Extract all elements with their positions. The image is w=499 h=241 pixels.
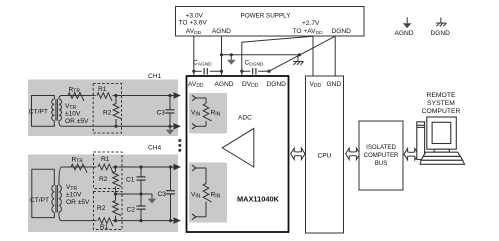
capacitor CDGND xyxy=(240,60,270,76)
svg-text:R2: R2 xyxy=(97,205,106,212)
svg-text:+3.0V: +3.0V xyxy=(186,12,204,19)
resistor R1 CH4 top xyxy=(97,156,114,173)
svg-text:CH4: CH4 xyxy=(148,145,162,152)
svg-text:CT/PT: CT/PT xyxy=(29,109,48,116)
svg-text:C3: C3 xyxy=(157,110,166,117)
CPU box xyxy=(306,76,344,233)
wire AVDD supply to ADC xyxy=(193,36,195,76)
svg-text:AGND: AGND xyxy=(212,28,231,35)
bus arrow ADC to CPU xyxy=(291,148,305,160)
svg-text:SYSTEM: SYSTEM xyxy=(427,100,455,107)
svg-text:RIN: RIN xyxy=(211,192,221,200)
input buffer block CH4 VIN RIN xyxy=(189,163,227,223)
resistor RTR CH4 xyxy=(71,157,87,173)
svg-text:DGND: DGND xyxy=(431,30,451,37)
svg-text:R1: R1 xyxy=(98,86,107,93)
svg-text:R1: R1 xyxy=(101,156,110,163)
DGND legend symbol xyxy=(431,18,451,38)
bus arrow CPU to isolated bus xyxy=(346,148,360,160)
resistor R2 CH1 xyxy=(103,94,122,128)
svg-text:COMPUTER: COMPUTER xyxy=(364,152,399,159)
svg-text:RIN: RIN xyxy=(211,110,221,118)
capacitor C3 CH4 xyxy=(158,165,176,222)
svg-text:BUS: BUS xyxy=(375,160,388,167)
wire GND supply to CPU xyxy=(334,36,336,76)
node AGND star junction xyxy=(220,53,223,56)
svg-text:COMPUTER: COMPUTER xyxy=(422,108,461,115)
label VTR source voltage CH4 xyxy=(66,184,90,206)
op-amp ADC triangle xyxy=(222,128,254,167)
svg-text:TO +3.6V: TO +3.6V xyxy=(179,19,208,26)
svg-text:R1: R1 xyxy=(100,224,109,231)
wire VDD supply to CPU xyxy=(312,36,314,76)
arrow CH1 bottom output xyxy=(174,123,182,129)
svg-text:DVDD: DVDD xyxy=(242,81,259,89)
capacitor C1 CH4 xyxy=(126,165,146,195)
svg-text:CT/PT: CT/PT xyxy=(30,197,49,204)
dashed divider box CH4 bottom R1 R2 xyxy=(94,192,123,230)
dashed divider box CH1 R1 R2 xyxy=(93,84,121,134)
wire CH4 middle rail to ground xyxy=(114,192,152,195)
resistor R2 CH4 bottom xyxy=(97,194,121,222)
ADC MAX11040K box xyxy=(187,76,289,232)
power supply box xyxy=(176,7,365,37)
svg-text:+2.7V: +2.7V xyxy=(302,20,320,27)
label VTR source voltage CH1 xyxy=(65,103,89,125)
wire CH4 bottom rail xyxy=(62,220,175,222)
svg-text:DGND: DGND xyxy=(332,28,352,35)
svg-text:C3: C3 xyxy=(158,191,167,198)
resistor R1 CH4 bottom xyxy=(97,216,114,232)
capacitor C2 CH4 xyxy=(127,194,146,222)
ground AGND middle CH4 xyxy=(148,194,156,204)
svg-text:CH1: CH1 xyxy=(148,73,162,80)
channel CH4 input network xyxy=(28,145,178,233)
svg-text:OR ±5V: OR ±5V xyxy=(66,199,90,206)
node DGND star junction xyxy=(298,53,301,56)
capacitor CAGND xyxy=(192,60,223,76)
svg-text:POWER SUPPLY: POWER SUPPLY xyxy=(241,12,292,19)
svg-text:C2: C2 xyxy=(127,207,136,214)
ground DGND at star node xyxy=(293,55,304,65)
channel CH1 input network xyxy=(28,73,178,136)
svg-text:VDD: VDD xyxy=(310,81,322,89)
svg-text:VIN: VIN xyxy=(191,192,201,200)
wire DGND diagonal from supply DGND to ADC DGND xyxy=(269,36,335,71)
svg-text:ISOLATED: ISOLATED xyxy=(366,144,396,151)
resistor RTR CH1 xyxy=(68,87,84,102)
svg-text:AVDD: AVDD xyxy=(188,81,204,89)
transformer T1 CT/PT xyxy=(29,96,62,127)
remote system computer icon xyxy=(417,117,465,164)
wire CH1 top rail xyxy=(62,95,175,97)
svg-text:R2: R2 xyxy=(99,176,108,183)
svg-text:C1: C1 xyxy=(126,177,135,184)
wire star-ground horizontal AGND link xyxy=(222,54,300,56)
AGND legend symbol xyxy=(395,17,414,37)
resistor R2 CH4 top xyxy=(99,165,121,194)
svg-text:RTR: RTR xyxy=(72,157,84,165)
svg-text:R2: R2 xyxy=(103,110,112,117)
arrow CH1 top output xyxy=(174,92,182,98)
ground AGND below C3 CH1 xyxy=(166,126,174,134)
svg-text:GND: GND xyxy=(327,81,342,88)
bus arrow isolated bus to remote computer xyxy=(404,148,418,160)
remote system computer label xyxy=(422,92,461,115)
wire AGND supply to ADC xyxy=(221,36,223,76)
wire DVDD: +2.7V pin diagonal and vertical to ADC DVDD xyxy=(242,36,313,76)
svg-text:DGND: DGND xyxy=(267,81,287,88)
svg-text:CPU: CPU xyxy=(318,153,332,160)
svg-text:±10V: ±10V xyxy=(66,192,82,199)
arrow CH4 top output xyxy=(174,164,182,170)
input buffer block CH1 VIN RIN xyxy=(189,93,227,134)
dashed divider box CH4 top R1 R2 xyxy=(94,152,123,189)
svg-text:±10V: ±10V xyxy=(65,111,81,118)
arrow CH4 bottom output xyxy=(174,217,182,223)
svg-text:ADC: ADC xyxy=(238,115,252,122)
wire CH4 top rail xyxy=(62,166,175,168)
svg-text:MAX11040K: MAX11040K xyxy=(237,195,280,204)
isolated computer bus box xyxy=(359,121,403,190)
capacitor C3 CH1 xyxy=(157,94,175,128)
node ellipsis between CH1 and CH4 xyxy=(178,139,181,152)
svg-text:REMOTE: REMOTE xyxy=(426,92,456,99)
ground AGND at star node xyxy=(227,53,236,65)
svg-text:AGND: AGND xyxy=(395,30,414,37)
svg-text:AGND: AGND xyxy=(215,81,234,88)
resistor R1 CH1 xyxy=(96,86,113,101)
svg-text:OR ±5V: OR ±5V xyxy=(65,118,89,125)
transformer T4 CT/PT xyxy=(30,167,62,221)
wire CH1 bottom rail xyxy=(62,125,175,127)
svg-text:VIN: VIN xyxy=(191,110,201,118)
svg-text:RTR: RTR xyxy=(69,87,81,95)
